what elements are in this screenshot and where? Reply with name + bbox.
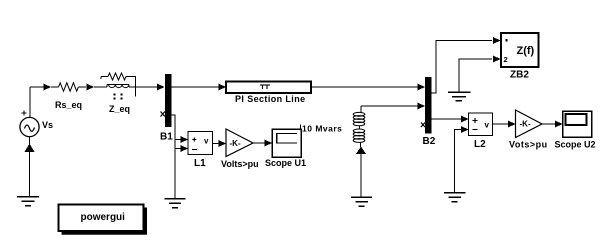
svg-text:-K-: -K- (230, 139, 241, 148)
ground under Vs (17, 197, 39, 206)
ground wire to ZB2 input 2 (459, 59, 492, 92)
svg-text:Volts>pu: Volts>pu (221, 159, 259, 169)
wire gain 2 to Scope U2 (542, 123, 555, 125)
bus B2 (425, 77, 432, 134)
ratio marks of Z_eq (114, 94, 123, 100)
gain Volts>pu (U1 chain) (226, 129, 253, 157)
wire B1 to PI Section Line (172, 86, 220, 88)
voltage measurement L1 (188, 132, 213, 155)
svg-text:10 Mvars: 10 Mvars (302, 124, 342, 134)
svg-text:ZB2: ZB2 (510, 70, 529, 81)
arrow into ZB2 port 2 (493, 56, 501, 63)
branch to L1 plus (175, 139, 181, 141)
arrow under reactor (356, 147, 366, 155)
inductor of Z_eq (106, 85, 108, 88)
wire B2 to ZB2 input 1 (432, 41, 493, 94)
PI Section Line block (226, 82, 311, 94)
arrow into Z_eq (87, 84, 95, 91)
svg-text:PI Section Line: PI Section Line (235, 94, 306, 104)
impedance Z_eq (94, 86, 107, 88)
wire L1 to gain (213, 143, 220, 145)
ground under B1 tap (165, 199, 186, 208)
gain Vots>pu (U2 chain) (516, 110, 543, 138)
block ZB2 (501, 33, 539, 67)
arrow into ZB2 port 1 (493, 37, 501, 44)
arrow into B2 (reactor) (418, 103, 426, 110)
port mark x of B2 (421, 123, 425, 128)
voltage source Vs (20, 117, 39, 136)
svg-text:B2: B2 (423, 136, 436, 147)
svg-text:L2: L2 (474, 139, 486, 150)
wire Z_eq to B1 (136, 86, 158, 88)
tap B1 to measurement chain (172, 115, 176, 198)
plus sign of Vs (22, 111, 27, 116)
ground under L2 (444, 193, 466, 202)
svg-text:2: 2 (504, 55, 508, 64)
resistor Rs_eq (51, 86, 59, 88)
svg-text:Vs: Vs (42, 120, 53, 130)
svg-text:Vots>pu: Vots>pu (509, 140, 548, 150)
svg-text:L1: L1 (194, 158, 206, 169)
wire reactor to ground (360, 153, 362, 197)
arrow on Vs bottom wire (25, 144, 35, 153)
wire from Vs top to main line (29, 87, 31, 118)
svg-text:powergui: powergui (81, 212, 126, 223)
pi symbol (260, 85, 270, 89)
bus B1 (165, 74, 172, 127)
svg-text:Scope U1: Scope U1 (265, 158, 306, 168)
ground wire to L2 minus (455, 130, 462, 193)
wire PI Section Line to B2 (311, 86, 418, 88)
svg-text:v: v (204, 137, 209, 146)
branch to L1 minus (175, 148, 181, 150)
wire L2 to gain 2 (493, 123, 509, 125)
wire Vs to Rs_eq (30, 86, 44, 88)
svg-text:-K-: -K- (520, 120, 531, 129)
corner tick (300, 125, 302, 130)
shunt reactor 10 Mvars (360, 106, 362, 113)
wire reactor to B2 (361, 105, 418, 107)
arrow into PI Section Line (219, 84, 227, 91)
right rail of Z_eq (135, 76, 137, 97)
arrow into B2 (top) (418, 84, 426, 91)
voltage measurement L2 (469, 113, 493, 136)
ground under reactor (351, 197, 372, 206)
svg-text:Rs_eq: Rs_eq (55, 100, 82, 110)
Scope U1 (272, 129, 301, 157)
tap B2 to L2 plus (432, 118, 462, 120)
ground at ZB2 (448, 92, 471, 101)
powergui block (144, 208, 148, 235)
Scope U2 (563, 111, 592, 137)
svg-text:v: v (485, 121, 490, 130)
wire from Vs bottom to ground (29, 137, 31, 197)
svg-text:Scope U2: Scope U2 (555, 140, 596, 150)
arrow into B1 (157, 84, 165, 91)
port 1 dot (506, 39, 508, 42)
arrow into Rs_eq (44, 84, 52, 91)
port mark x of B1 (161, 112, 166, 117)
svg-text:Z(f): Z(f) (517, 45, 535, 57)
svg-text:Z_eq: Z_eq (109, 104, 130, 114)
wire gain to Scope U1 (253, 142, 265, 144)
svg-text:B1: B1 (160, 132, 173, 143)
